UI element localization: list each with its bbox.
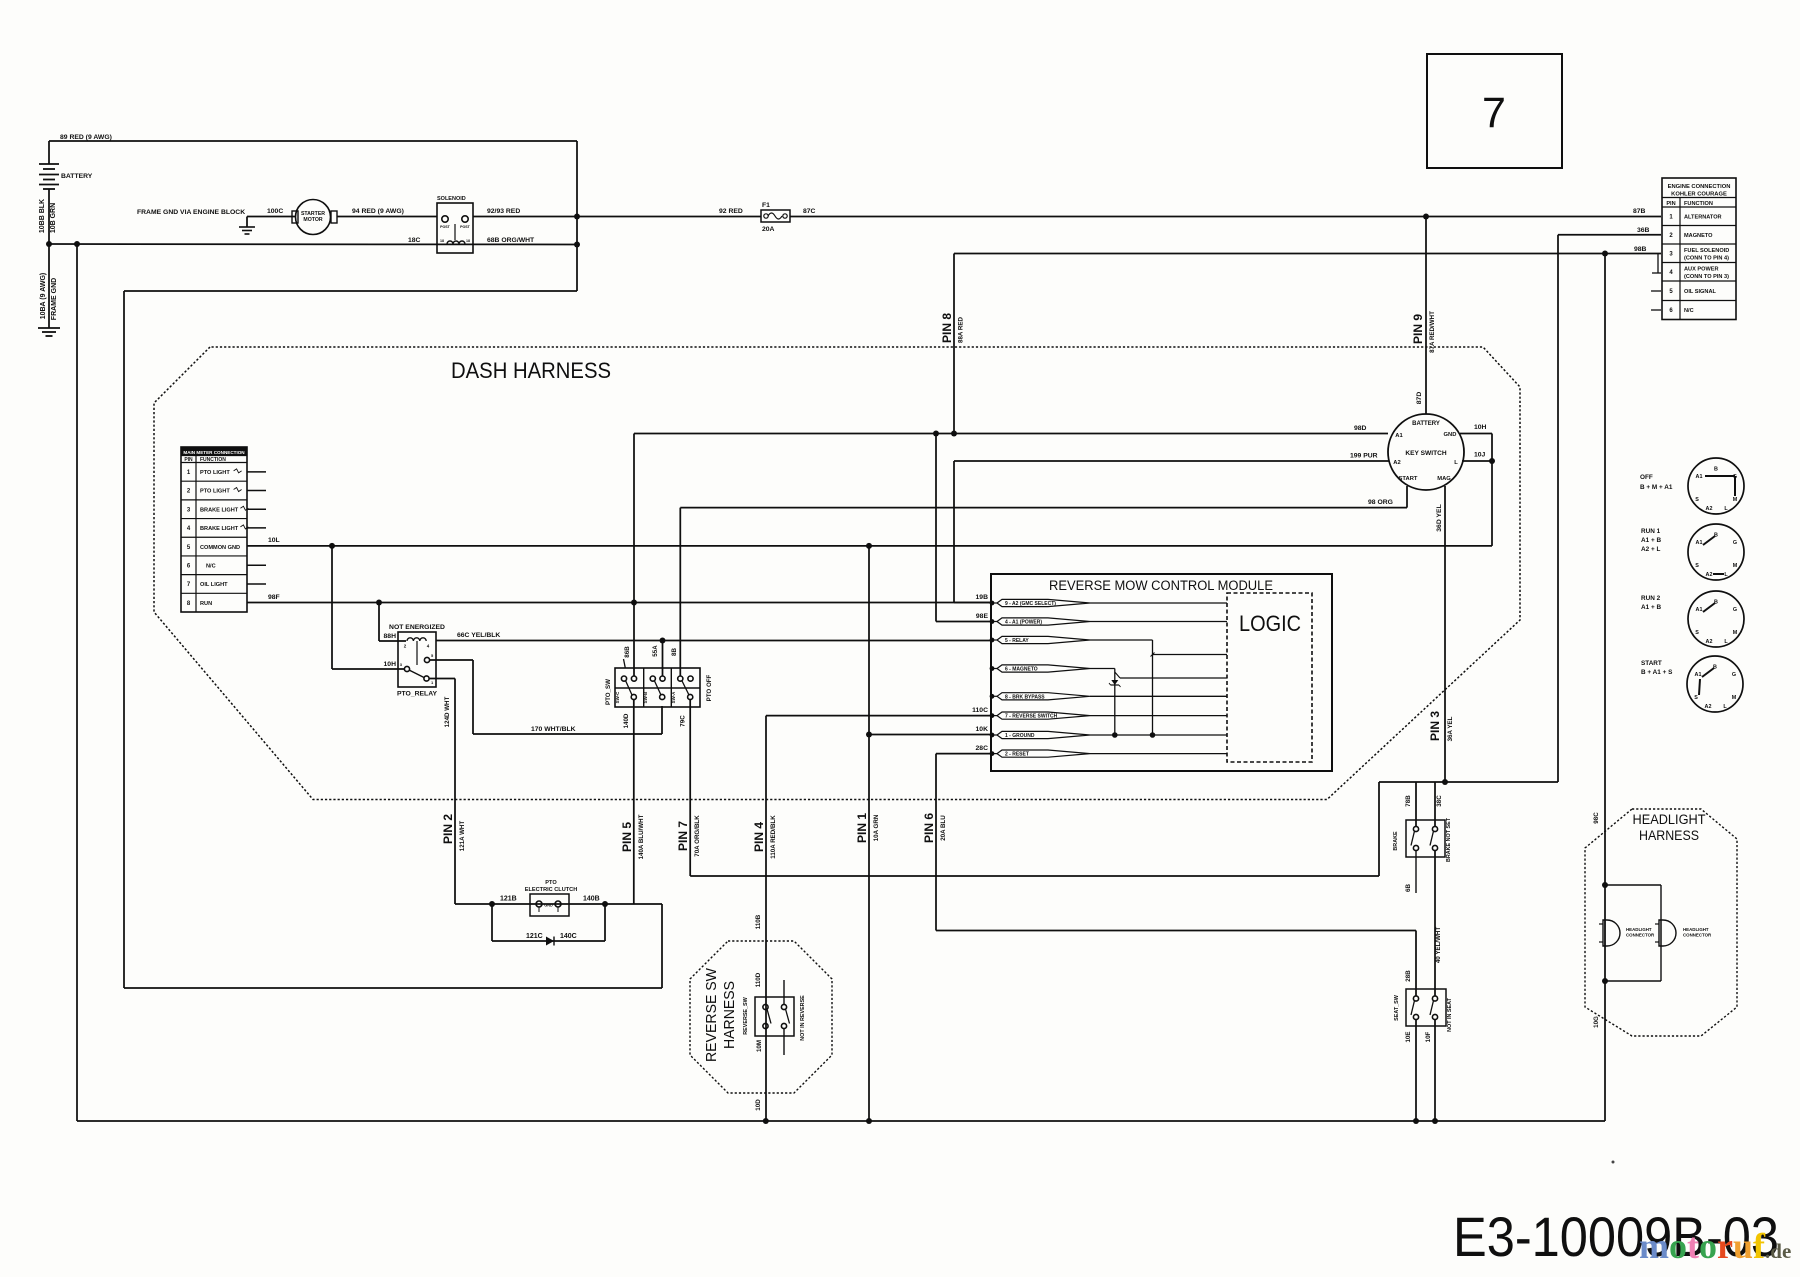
svg-text:AUX POWER: AUX POWER [1684, 267, 1719, 273]
svg-text:199 PUR: 199 PUR [1350, 453, 1378, 460]
svg-text:110A RED/BLK: 110A RED/BLK [770, 815, 777, 859]
svg-text:79C: 79C [680, 715, 687, 727]
svg-text:PIN 8: PIN 8 [940, 313, 954, 343]
svg-text:PIN 4: PIN 4 [752, 822, 766, 852]
svg-text:A2 + L: A2 + L [1641, 546, 1660, 553]
svg-text:10K: 10K [976, 726, 989, 733]
svg-text:BATTERY: BATTERY [1412, 421, 1440, 427]
svg-text:LOGIC: LOGIC [1239, 611, 1301, 636]
svg-text:G: G [1732, 672, 1736, 678]
svg-text:10A GRN: 10A GRN [873, 814, 880, 841]
svg-text:36B: 36B [1637, 227, 1650, 234]
svg-text:10L: 10L [268, 537, 280, 544]
svg-text:6 - MAGNETO: 6 - MAGNETO [1005, 667, 1038, 673]
svg-text:A1: A1 [1696, 474, 1703, 480]
svg-text:B + A1 + S: B + A1 + S [1641, 669, 1673, 676]
svg-text:CONNECTOR: CONNECTOR [1683, 933, 1712, 938]
svg-text:PIN 9: PIN 9 [1411, 314, 1425, 344]
svg-text:B: B [1713, 665, 1717, 671]
svg-text:20A BLU: 20A BLU [940, 815, 947, 841]
svg-text:10BA (9 AWG): 10BA (9 AWG) [40, 273, 47, 320]
svg-text:(CONN TO PIN 3): (CONN TO PIN 3) [1684, 274, 1729, 280]
svg-text:B: B [1714, 467, 1718, 473]
svg-text:HARNESS: HARNESS [1639, 828, 1699, 843]
svg-text:ALTERNATOR: ALTERNATOR [1684, 214, 1722, 220]
svg-text:N/C: N/C [1684, 308, 1694, 314]
svg-text:19B: 19B [976, 594, 989, 601]
svg-text:70A ORG/BLK: 70A ORG/BLK [694, 815, 701, 857]
svg-text:8 - BRK BYPASS: 8 - BRK BYPASS [1005, 694, 1045, 700]
svg-text:140D: 140D [623, 713, 630, 728]
svg-text:BRAKE LIGHT: BRAKE LIGHT [200, 507, 239, 513]
svg-text:HEADLIGHT: HEADLIGHT [1633, 812, 1706, 827]
svg-text:92 RED: 92 RED [719, 208, 743, 215]
svg-text:B: B [1714, 533, 1718, 539]
svg-text:78B: 78B [1405, 795, 1412, 807]
svg-text:86B: 86B [624, 646, 631, 658]
svg-text:MAIN METER CONNECTION: MAIN METER CONNECTION [183, 450, 245, 455]
svg-text:66C YEL/BLK: 66C YEL/BLK [457, 632, 500, 639]
svg-text:B + M + A1: B + M + A1 [1640, 484, 1673, 491]
svg-text:98D: 98D [1354, 425, 1367, 432]
svg-text:DASH HARNESS: DASH HARNESS [451, 358, 611, 383]
svg-text:B: B [1714, 600, 1718, 606]
svg-text:6B: 6B [1405, 884, 1412, 892]
svg-text:G: G [1733, 540, 1737, 546]
svg-text:98C: 98C [1593, 812, 1600, 824]
svg-text:PTO LIGHT: PTO LIGHT [200, 489, 230, 495]
svg-text:170 WHT/BLK: 170 WHT/BLK [531, 726, 576, 733]
svg-text:PIN: PIN [1666, 201, 1675, 207]
svg-text:38C: 38C [1436, 795, 1443, 807]
svg-text:20A: 20A [762, 226, 775, 233]
svg-text:89 RED (9 AWG): 89 RED (9 AWG) [60, 134, 112, 141]
svg-text:87C: 87C [803, 208, 816, 215]
svg-text:140B: 140B [583, 896, 600, 903]
svg-text:88H: 88H [384, 633, 397, 640]
svg-text:PIN 1: PIN 1 [855, 813, 869, 843]
svg-text:68B ORG/WHT: 68B ORG/WHT [487, 237, 535, 244]
svg-text:GND: GND [1444, 432, 1457, 438]
svg-text:OFF: OFF [1640, 474, 1653, 481]
svg-text:140C: 140C [560, 933, 577, 940]
svg-text:GND: GND [544, 904, 553, 908]
svg-text:M: M [1733, 497, 1738, 503]
svg-text:SW-C: SW-C [615, 691, 620, 703]
svg-text:M: M [1732, 695, 1737, 701]
svg-text:A1: A1 [1695, 672, 1702, 678]
svg-text:98F: 98F [268, 594, 280, 601]
svg-text:KOHLER COURAGE: KOHLER COURAGE [1671, 192, 1727, 198]
svg-text:10D: 10D [755, 1099, 762, 1111]
svg-text:A1 + B: A1 + B [1641, 537, 1661, 544]
svg-text:N/C: N/C [206, 563, 216, 569]
svg-text:RUN 1: RUN 1 [1641, 528, 1661, 535]
svg-text:A1 + B: A1 + B [1641, 604, 1661, 611]
svg-text:10B GRN: 10B GRN [50, 203, 57, 233]
svg-text:FUEL SOLENOID: FUEL SOLENOID [1684, 248, 1729, 254]
svg-text:10E: 10E [1405, 1031, 1412, 1042]
svg-text:98E: 98E [976, 613, 989, 620]
svg-text:87D: 87D [1416, 392, 1423, 405]
svg-text:121C: 121C [526, 933, 543, 940]
svg-text:(CONN TO PIN 4): (CONN TO PIN 4) [1684, 255, 1729, 261]
svg-text:10F: 10F [1425, 1031, 1432, 1042]
svg-text:110C: 110C [972, 707, 988, 714]
svg-text:REVERSE MOW CONTROL MODULE: REVERSE MOW CONTROL MODULE [1049, 578, 1273, 593]
svg-text:121B: 121B [500, 896, 517, 903]
svg-text:S: S [1695, 630, 1699, 636]
svg-text:POST: POST [440, 225, 451, 229]
svg-text:PTO LIGHT: PTO LIGHT [200, 470, 230, 476]
svg-text:5 - RELAY: 5 - RELAY [1005, 638, 1029, 644]
svg-text:MAGNETO: MAGNETO [1684, 233, 1713, 239]
svg-text:A2: A2 [1706, 572, 1713, 578]
svg-text:A2: A2 [1706, 506, 1713, 512]
svg-text:110D: 110D [755, 972, 762, 987]
svg-text:A1: A1 [1395, 433, 1403, 439]
svg-text:FRAME GND VIA ENGINE BLOCK: FRAME GND VIA ENGINE BLOCK [137, 209, 245, 216]
svg-text:PTO: PTO [545, 880, 557, 886]
svg-text:10H: 10H [1474, 424, 1487, 431]
svg-text:PIN 3: PIN 3 [1428, 711, 1442, 741]
svg-text:PTO_SW: PTO_SW [605, 679, 612, 705]
svg-text:18: 18 [440, 239, 444, 243]
svg-text:4 - A1 (POWER): 4 - A1 (POWER) [1005, 620, 1042, 626]
svg-text:A1: A1 [1696, 540, 1703, 546]
svg-text:PIN 5: PIN 5 [620, 822, 634, 852]
svg-text:COMMON GND: COMMON GND [200, 545, 240, 551]
svg-text:START: START [1399, 476, 1418, 482]
svg-text:87B: 87B [1633, 208, 1646, 215]
svg-text:36D YEL: 36D YEL [1436, 504, 1443, 531]
svg-text:9 - A2 (GMC SELECT): 9 - A2 (GMC SELECT) [1005, 601, 1056, 607]
svg-text:28B: 28B [1405, 970, 1412, 982]
svg-text:F1: F1 [762, 202, 770, 209]
svg-text:SW-B: SW-B [643, 692, 648, 704]
svg-text:MOTOR: MOTOR [303, 217, 322, 223]
svg-text:PTO_RELAY: PTO_RELAY [397, 691, 438, 698]
svg-text:140A BLU/WHT: 140A BLU/WHT [638, 814, 645, 859]
svg-text:S: S [1695, 497, 1699, 503]
svg-text:S: S [1695, 563, 1699, 569]
svg-text:ELECTRIC CLUTCH: ELECTRIC CLUTCH [525, 887, 578, 893]
svg-text:10G: 10G [1593, 1016, 1600, 1028]
svg-text:REVERSE_SW: REVERSE_SW [743, 996, 749, 1034]
svg-text:G: G [1733, 607, 1737, 613]
svg-text:94 RED (9 AWG): 94 RED (9 AWG) [352, 208, 404, 215]
svg-text:A2: A2 [1393, 460, 1400, 466]
svg-text:PTO OFF: PTO OFF [706, 674, 713, 701]
svg-text:88A RED: 88A RED [958, 317, 965, 343]
svg-text:BATTERY: BATTERY [61, 173, 93, 180]
svg-text:10J: 10J [1474, 452, 1486, 459]
svg-text:PIN 6: PIN 6 [922, 813, 936, 843]
svg-text:NOT ENERGIZED: NOT ENERGIZED [389, 624, 445, 631]
svg-text:POST: POST [460, 225, 471, 229]
svg-text:FUNCTION: FUNCTION [1684, 201, 1713, 207]
svg-text:ENGINE CONNECTION: ENGINE CONNECTION [1668, 184, 1731, 190]
svg-text:28C: 28C [976, 745, 989, 752]
svg-text:CONNECTOR: CONNECTOR [1626, 933, 1655, 938]
svg-text:SEAT_SW: SEAT_SW [1394, 994, 1400, 1021]
svg-text:HARNESS: HARNESS [721, 981, 738, 1049]
svg-text:OIL LIGHT: OIL LIGHT [200, 582, 228, 588]
svg-text:7: 7 [1482, 89, 1506, 137]
svg-text:M: M [1733, 563, 1738, 569]
svg-text:18C: 18C [408, 237, 421, 244]
svg-text:M: M [1733, 630, 1738, 636]
svg-text:10M: 10M [756, 1040, 763, 1052]
svg-text:SW-A: SW-A [671, 691, 676, 703]
svg-text:L: L [1454, 460, 1458, 466]
svg-text:PIN 7: PIN 7 [676, 821, 690, 851]
svg-text:121A WHT: 121A WHT [459, 821, 466, 852]
svg-text:92/93 RED: 92/93 RED [487, 208, 520, 215]
svg-text:100C: 100C [267, 208, 283, 215]
svg-text:RUN 2: RUN 2 [1641, 595, 1661, 602]
svg-text:BRAKE LIGHT: BRAKE LIGHT [200, 526, 239, 532]
svg-text:18: 18 [466, 239, 470, 243]
svg-text:55A: 55A [652, 645, 659, 657]
svg-text:FRAME GND: FRAME GND [51, 278, 58, 320]
svg-text:RUN: RUN [200, 601, 212, 607]
svg-text:BRAKE: BRAKE [1393, 831, 1399, 851]
svg-text:SOLENOID: SOLENOID [437, 196, 466, 202]
svg-text:98B: 98B [1634, 246, 1647, 253]
svg-text:A1: A1 [1696, 607, 1703, 613]
svg-text:NOT IN REVERSE: NOT IN REVERSE [800, 995, 806, 1041]
svg-text:2 - RESET: 2 - RESET [1005, 752, 1029, 758]
svg-text:98 ORG: 98 ORG [1368, 499, 1393, 506]
svg-text:PIN 2: PIN 2 [441, 814, 455, 844]
svg-text:A2: A2 [1705, 704, 1712, 710]
svg-text:7 - REVERSE SWITCH: 7 - REVERSE SWITCH [1005, 714, 1058, 720]
svg-text:10BB BLK: 10BB BLK [39, 199, 46, 233]
svg-text:BRAKE NOT SET: BRAKE NOT SET [1446, 817, 1452, 862]
svg-text:1 - GROUND: 1 - GROUND [1005, 733, 1035, 739]
svg-text:NOT IN SEAT: NOT IN SEAT [1447, 997, 1453, 1031]
svg-text:HEADLIGHT: HEADLIGHT [1683, 927, 1709, 932]
svg-text:KEY SWITCH: KEY SWITCH [1405, 450, 1447, 457]
svg-text:40 YEL/WHT: 40 YEL/WHT [1435, 927, 1442, 964]
svg-text:8B: 8B [671, 648, 678, 656]
svg-text:A2: A2 [1706, 639, 1713, 645]
svg-text:OIL SIGNAL: OIL SIGNAL [1684, 289, 1716, 295]
svg-text:124D WHT: 124D WHT [444, 696, 451, 727]
svg-text:110B: 110B [755, 914, 762, 929]
svg-text:36A YEL: 36A YEL [1447, 716, 1454, 741]
svg-text:10H: 10H [384, 661, 397, 668]
svg-text:S: S [1694, 695, 1698, 701]
svg-text:START: START [1641, 660, 1662, 667]
svg-text:MAG: MAG [1437, 476, 1451, 482]
svg-text:REVERSE SW: REVERSE SW [703, 967, 720, 1062]
svg-text:HEADLIGHT: HEADLIGHT [1626, 927, 1652, 932]
